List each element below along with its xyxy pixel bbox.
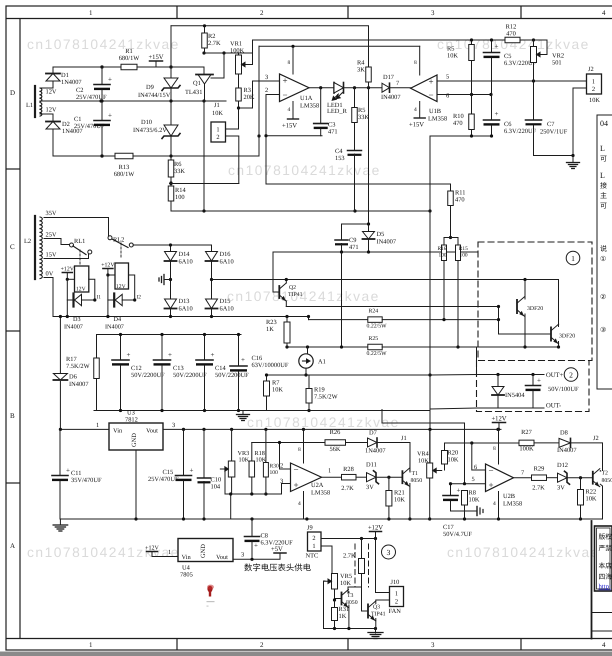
U2A pin3 label [280,478,283,485]
diode D3 IN4007 [64,294,83,331]
wire 2.7K bottom [348,574,362,593]
diode D16 6A10 [206,251,234,266]
svg-text:LM358: LM358 [300,103,319,110]
svg-text:2: 2 [216,134,219,141]
wire U3 gnd pin [135,450,137,519]
wire U1A pin2 down to rail184 [266,136,285,184]
VR4 labels real [417,451,429,465]
wire L1 top to D1 [40,81,53,88]
T1 labels [411,471,423,484]
wire R14 bottom to rail211 [170,201,172,211]
wire feedback rail y442.5 [252,442,325,444]
svg-text:50V/2200UF: 50V/2200UF [215,372,249,379]
junction dot R22 top [579,476,582,479]
svg-text:I2: I2 [137,295,142,301]
svg-text:63V/10000UF: 63V/10000UF [252,362,289,369]
chassis ground main [53,525,68,531]
svg-text:3V: 3V [557,485,565,492]
wire D16 to D15 [211,261,213,299]
svg-text:25V/470UF: 25V/470UF [74,123,105,130]
wire R7 top [266,375,268,381]
wire D13 bottom lead [170,309,172,317]
junction dots 12V rail [182,428,500,431]
svg-text:1: 1 [395,591,398,598]
svg-text:7.5K/2W: 7.5K/2W [66,363,91,370]
wire R15 top lead [451,238,459,246]
resistor R17 7.5K/2W [66,335,99,411]
wire 35V tap [44,218,109,238]
junction dots rail40 [470,38,535,41]
svg-text:+: + [190,467,194,475]
svg-text:C2: C2 [76,87,83,94]
wire base bus y306.5 [286,306,498,308]
svg-text:3DF20: 3DF20 [559,334,575,340]
resistor R31 1K [332,606,350,621]
zener D9 IN4744/15V [138,78,180,99]
wire sense wire y423 [382,422,465,424]
wire D12 to T2 [567,477,593,479]
svg-text:R16: R16 [438,246,447,252]
svg-text:4: 4 [493,501,496,507]
U2B power bottom [493,492,499,520]
svg-text:C4: C4 [335,148,343,155]
wire T2 collector up [599,470,601,473]
wire L1 bottom to D2 [40,114,53,121]
svg-text:R21: R21 [394,490,405,497]
U3 GND label rotated fix [0,0,1,1]
voltage regulator U3 7812 [109,410,163,451]
svg-text:10K: 10K [239,457,250,464]
wire H3 right part [382,346,558,348]
svg-text:IN4007: IN4007 [381,94,401,101]
U1A pin2 label [265,87,268,94]
wire C3 top lead [320,88,322,124]
resistor R27 100K [519,440,534,446]
junction dots gnd bus left [134,517,582,520]
svg-text:8: 8 [414,60,417,66]
svg-text:可: 可 [600,202,607,210]
3DF20 lower label [559,334,575,340]
title block link text [599,584,612,591]
svg-text:25V: 25V [46,232,57,239]
LED LED1 LED_R [327,83,348,116]
svg-text:J2: J2 [588,66,594,73]
svg-text:50V/2200UF: 50V/2200UF [131,372,165,379]
wire T3 collector [348,591,350,594]
capacitor C13 50V/2200UF [154,351,208,379]
svg-text:R11: R11 [455,190,465,197]
svg-text:+5V: +5V [271,546,283,553]
svg-text:3V: 3V [366,484,374,491]
U1B pin7 label [396,80,400,87]
wire U1A pin2 wire [266,95,280,136]
svg-text:D1: D1 [61,72,69,79]
svg-text:50V/100UF: 50V/100UF [548,386,579,393]
wire R21 bottom lead [388,506,390,519]
wire C13 bottom [161,366,163,411]
svg-text:1: 1 [96,422,99,429]
svg-text:D2: D2 [62,121,70,128]
capacitor C2 25V/470UF [76,76,112,102]
diode IN5404 [492,387,525,400]
junction dots pin6 [470,79,535,96]
svg-text:C11: C11 [71,470,81,477]
diode D5 IN4007 [363,231,397,246]
dashed NTC area [355,544,369,587]
svg-text:35V: 35V [46,210,57,217]
svg-text:T1: T1 [412,471,419,477]
junction dot T3 base [333,598,336,601]
wire R18 top riser to feedback [251,443,253,462]
potentiometer VR1 100K [230,41,253,75]
svg-text:8050: 8050 [411,478,423,484]
wire 2.7K to Q3 base [361,587,363,611]
wire J1 pin2 to rail183 [170,136,239,184]
wire C15 bottom [183,481,185,519]
transistor T1 8050 [402,468,409,486]
svg-text:100: 100 [439,253,447,259]
svg-text:0.22/5W: 0.22/5W [367,351,388,357]
right text box border [597,115,612,389]
net label J1 [401,435,407,442]
svg-text:R30: R30 [270,464,280,470]
wire RL2 coil right loop [122,275,135,300]
junction dot D6 column [59,315,62,318]
wire VR5 wiper col [324,581,326,629]
3DF20 upper label [527,306,543,312]
wire H2 right part [382,319,498,321]
wire C9 D5 top [342,223,369,225]
svg-text:10K: 10K [469,497,480,504]
wire 3DF20 upper collector [524,280,526,300]
wire C3 bottom lead [320,129,322,136]
circled 2 label [564,368,578,382]
U3 pin1 label [96,422,99,429]
wire U2B pin6 wire [472,443,486,470]
junction dot Q1 mid rail [202,51,225,102]
wire D11 to T1 base [376,476,402,478]
wire +15V stem to rail [156,66,171,68]
wire R2 bottom rail y53 [205,53,253,65]
junction dot pin6 riser [470,441,473,444]
voltage regulator U4 7805 [178,539,233,579]
wire VR2 wiper tie [534,40,548,55]
svg-text:L: L [600,171,605,180]
connector J2 [587,66,602,104]
svg-text:2: 2 [569,371,573,380]
svg-text:U1A: U1A [300,95,313,102]
svg-text:470: 470 [506,31,516,38]
svg-text:C10: C10 [211,477,222,484]
wire U2B out [514,477,532,479]
wire R30 bottom [265,477,267,494]
wire R7 bottom [266,396,268,411]
wire 0V tap [44,278,53,317]
wire A1 top riser [307,347,309,354]
svg-text:1: 1 [328,468,331,475]
svg-text:470: 470 [453,120,463,127]
svg-text:100K: 100K [230,48,245,55]
zener D10 IN4735/6.2V [133,119,180,139]
capacitor C3 471 [314,122,338,136]
wire RL2 coil left feed [106,273,115,276]
wire rail y494 to gnd [230,494,232,519]
U4 pin3 label [241,552,244,559]
svg-text:4: 4 [602,641,606,649]
svg-text:J2: J2 [593,435,599,442]
resistor R8 10K [462,490,480,506]
potentiometer VR4 10K [427,463,442,478]
svg-text:http:: http: [599,584,612,591]
wire rail y40 corner [253,39,548,41]
svg-text:100: 100 [175,194,185,201]
svg-text:8: 8 [288,60,291,66]
junction dot gnd node [571,154,574,157]
transistor T2 8050 [593,469,600,487]
junction dot R3 bottom [237,106,240,109]
wire R16 top lead [444,238,451,246]
junction dot pin2 node [264,134,267,137]
junction dots rail211 [202,209,431,212]
wire LED to R5 node [344,87,382,89]
wire RL2 column to rail [107,275,109,317]
capacitor C17 50V/4.7UF [443,487,472,539]
svg-text:2: 2 [265,87,268,94]
svg-text:D7: D7 [369,430,378,437]
svg-text:接: 接 [600,182,607,190]
VR3 labels [238,450,250,464]
title block text [599,533,612,581]
wire C9 bottom lead [341,244,343,253]
svg-text:6: 6 [446,93,449,100]
wire T3 collector link [348,591,350,594]
resistor R18 10K [249,461,255,477]
wire D3 cathode stub [67,299,73,301]
wire gnd rail to OUT- [430,408,477,409]
svg-text:+15V: +15V [282,123,297,130]
svg-text:100: 100 [270,470,279,476]
svg-text:数字电压表头供电: 数字电压表头供电 [244,563,312,573]
wire D1 top to +15V rail [53,67,156,74]
wire bottom wire y136 [430,135,492,137]
ammeter A1 [299,354,326,368]
svg-text:D: D [10,89,15,97]
resistor R4 3K [357,60,371,88]
wire C8 top from gnd [251,519,253,537]
svg-text:2: 2 [312,535,315,542]
svg-text:3: 3 [172,422,175,429]
svg-text:1: 1 [89,9,93,17]
resistor R26 56K [325,440,346,446]
junction dot R6R14 junction [169,182,172,185]
svg-text:33K: 33K [358,114,369,121]
resistor R15 100 [456,245,461,261]
svg-text:+: + [294,480,299,490]
svg-text:+: + [66,467,70,475]
capacitor C14 50V/2200UF [196,351,249,379]
svg-text:R24: R24 [369,309,379,315]
capacitor C6 6.3V/220UF [484,110,537,135]
junction dots LED node [353,86,370,89]
svg-text:10K: 10K [586,496,597,503]
wire bus x430 down [429,136,431,210]
diode D15 6A10 [206,298,234,313]
wire 25V tap [44,239,70,245]
wire C16 bottom [238,372,240,411]
svg-text:GND: GND [200,544,207,558]
junction dot U1A vcc [257,45,294,138]
+12V terminal U4 [145,546,159,557]
+12V terminal RL1 [61,267,75,280]
svg-text:Q3: Q3 [373,605,380,611]
wire Q1 top to +15V rail [203,67,205,74]
diode D2 1N4007 [46,121,83,135]
svg-text:IN4007: IN4007 [557,447,577,454]
svg-text:10K: 10K [448,457,459,464]
svg-text:②: ② [600,293,606,301]
svg-text:C3: C3 [328,122,335,129]
svg-text:12V: 12V [116,284,126,290]
title block rule 2 [592,630,612,632]
+15V terminal [148,54,163,67]
svg-text:U3: U3 [127,410,135,417]
wire D7 to J1 corner [377,443,410,473]
wire H2 R16 row [309,319,368,321]
svg-text:2.7K: 2.7K [208,40,221,47]
junction dots rail316 relay cols [66,315,110,318]
junction dots 12V fan node [360,537,377,540]
wire VR5 bottom [334,589,336,600]
svg-text:R13: R13 [119,164,130,171]
wire pin5 wire [451,483,486,485]
U1A power pin bottom +15V [282,102,299,130]
svg-text:严禁: 严禁 [599,545,612,553]
text power supply caption [244,563,312,573]
svg-text:56K: 56K [329,446,340,453]
svg-text:R7: R7 [272,380,280,387]
capacitor C7 250V/1UF [526,120,568,136]
svg-text:4: 4 [298,501,301,507]
diode D4 IN4007 [105,294,124,331]
capacitor C16 63V/10000UF [230,355,289,372]
svg-text:501: 501 [552,60,562,67]
dashed box 1 around 3DF20 [478,242,592,361]
T3 labels [346,593,358,606]
junction dots pin5 node [449,482,466,485]
wire rail y184 right [266,184,451,191]
svg-text:+12V: +12V [368,525,383,532]
svg-text:−: − [429,90,434,100]
svg-text:IN4744/15V: IN4744/15V [138,92,171,99]
svg-text:R28: R28 [343,466,354,473]
TL431 Q1 symbol [185,75,213,97]
svg-text:D5: D5 [377,231,385,238]
svg-text:10K: 10K [212,110,223,117]
chassis ground fan [368,633,383,639]
wire D6 column upper [59,317,61,374]
svg-text:Vin: Vin [113,428,123,435]
svg-text:33K: 33K [174,168,185,175]
svg-text:1: 1 [312,543,315,550]
svg-text:③: ③ [600,326,606,334]
svg-text:25V/470UF: 25V/470UF [148,476,179,483]
wire sense rail y375 [267,374,477,377]
svg-text:1N4007: 1N4007 [61,79,82,86]
R25 labels [367,336,388,357]
wire VR1 bottom to R3 [238,74,240,88]
svg-text:1K: 1K [339,613,347,620]
wire bus x368 down D5 [368,88,370,224]
svg-text:L1: L1 [26,102,33,109]
wire A1 bottom [305,368,307,375]
junction dot D4 anode [133,298,136,301]
svg-text:R29: R29 [534,466,545,473]
wire power rail y46 [259,45,420,47]
svg-text:R8: R8 [469,490,476,497]
svg-text:R20: R20 [448,450,459,457]
junction dot R11 bottom [449,236,452,239]
svg-text:U2B: U2B [503,493,515,500]
resistor R12 470 [505,24,520,43]
T2 labels [602,471,612,485]
svg-text:cn1078104241zkvae: cn1078104241zkvae [228,163,381,178]
wire D14 top lead [170,245,172,252]
wire OUT- rail segment [477,407,545,409]
svg-text:2: 2 [280,463,283,470]
wire R30 top riser [265,429,267,462]
wire C5 top lead [491,40,493,53]
resistor R3 20K [236,87,255,101]
svg-text:+: + [108,76,112,84]
svg-text:D4: D4 [114,316,122,323]
svg-text:1: 1 [571,254,575,263]
svg-text:+: + [254,542,258,550]
svg-text:−: − [283,90,288,100]
svg-text:471: 471 [349,244,359,251]
svg-text:6.3V/220UF: 6.3V/220UF [504,128,537,135]
U2A pin1 label [328,468,331,475]
wire IN5404 bottom lead [497,395,499,408]
svg-text:3: 3 [431,9,435,17]
svg-text:L2: L2 [24,238,31,245]
svg-text:+: + [489,480,494,490]
svg-text:35V/470UF: 35V/470UF [71,477,102,484]
junction dots H3 [285,345,560,348]
diode D17 IN4007 [381,74,401,101]
zener D12 3V [557,462,570,492]
U2B pin6 label [474,464,477,471]
potentiometer VR5 10K [324,573,353,589]
svg-text:−: − [489,466,494,476]
wire C1 bottom lead [101,126,103,156]
junction dot C8 bottom [250,558,253,561]
svg-text:C12: C12 [131,365,142,372]
gnd stem main [59,519,61,525]
junction main node dots region1 [100,65,103,157]
svg-text:4: 4 [288,107,291,113]
transistor Q2 TIP41 [279,283,286,301]
gnd stem fan [375,629,377,634]
svg-text:cn1078104241zkvae: cn1078104241zkvae [227,289,380,304]
svg-text:TIP41: TIP41 [288,292,303,298]
svg-text:+: + [211,351,215,359]
wire R23 top [286,317,288,323]
wire wire y443 R20 [445,442,520,444]
OUT- label [546,403,561,410]
wire mid rail to TL431 [101,100,204,102]
wire U2A out wire [322,476,342,478]
wire R22 bottom lead [580,505,582,519]
